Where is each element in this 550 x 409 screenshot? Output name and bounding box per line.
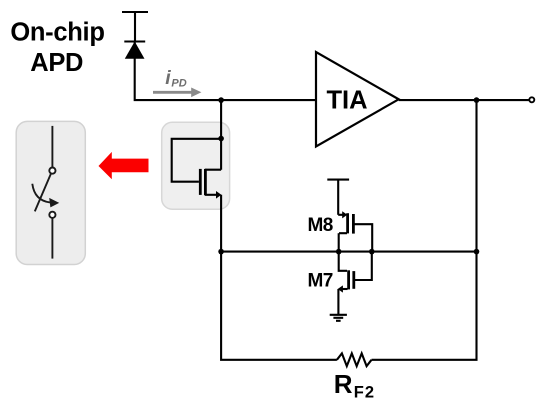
- svg-text:M7: M7: [308, 271, 333, 292]
- svg-text:R: R: [334, 369, 353, 399]
- svg-text:i: i: [165, 67, 171, 89]
- svg-text:TIA: TIA: [326, 87, 367, 115]
- svg-text:F2: F2: [354, 383, 375, 401]
- svg-text:PD: PD: [171, 77, 186, 89]
- svg-text:APD: APD: [30, 49, 83, 77]
- svg-text:M8: M8: [308, 215, 333, 236]
- svg-text:On-chip: On-chip: [10, 18, 104, 46]
